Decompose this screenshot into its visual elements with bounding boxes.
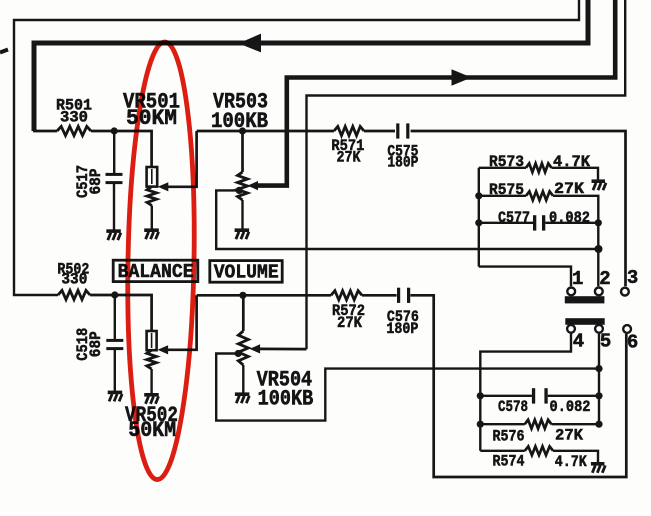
svg-text:R575: R575 (489, 181, 524, 199)
resistor R575 row (475, 192, 482, 199)
node: junction R501/C517 (111, 127, 118, 134)
ground at R573 right (592, 179, 606, 183)
resistor R576 row (477, 421, 484, 428)
potentiometer VR502 (box + zigzag) (147, 331, 157, 350)
svg-text:68P: 68P (87, 169, 105, 195)
potentiometer VR504 (242, 295, 245, 331)
wiper arrow VR503 + thick output bus to top edge (248, 181, 259, 190)
svg-text:27K: 27K (555, 427, 583, 445)
border tick top-left (0, 50, 8, 53)
svg-text:R573: R573 (489, 153, 524, 171)
resistor R501 (57, 126, 91, 135)
label C517/68P rotated (74, 165, 92, 198)
node: pin2 junction with row y=249 (595, 245, 603, 253)
resistor R502 (58, 290, 90, 299)
svg-text:180P: 180P (386, 320, 418, 338)
wire: top main row (VR501 wiper to VR503, R571, C575, to pin3 column) (197, 130, 334, 133)
svg-text:4.7K: 4.7K (555, 453, 587, 471)
svg-text:R576: R576 (493, 427, 525, 445)
wiper arrow VR501 (158, 182, 169, 191)
wire: C576 to pin6 via bottom loop (410, 295, 626, 477)
resistor R573 row (479, 167, 526, 169)
svg-text:27K: 27K (337, 314, 362, 332)
svg-text:C578: C578 (498, 398, 528, 416)
svg-text:2: 2 (599, 268, 610, 290)
resistor R574 row (480, 450, 525, 452)
svg-text:1: 1 (572, 268, 583, 290)
wire: VR504 wiper up and over to pin3-column top exit (307, 0, 626, 349)
wire: VR503 tap to pin2 (long row y=249) (216, 190, 598, 249)
annotation: red ellipse (124, 41, 198, 480)
resistor R572 (331, 291, 362, 300)
switch upper: pins 1 2 3 (565, 296, 605, 303)
svg-text:330: 330 (60, 109, 88, 127)
svg-text:VOLUME: VOLUME (214, 262, 279, 284)
svg-text:C577: C577 (498, 209, 530, 227)
wiper arrow VR504 (250, 344, 261, 353)
node: VR503 lower tap (236, 187, 243, 194)
svg-text:68P: 68P (87, 331, 105, 357)
arrowhead right on thick bus (452, 69, 472, 85)
svg-text:4: 4 (573, 331, 584, 353)
node: VR504 lower tap (235, 350, 242, 357)
label box VOLUME (210, 261, 282, 283)
capacitor C576 (397, 288, 400, 303)
svg-text:330: 330 (61, 271, 87, 289)
ground under VR501 (144, 228, 159, 232)
svg-text:3: 3 (627, 267, 638, 289)
arrowhead left on thick bus (239, 34, 262, 53)
ground under C518 (108, 391, 123, 395)
node: VR503 top (239, 127, 246, 134)
network R573/R575/C577 left rail (478, 168, 480, 267)
potentiometer VR503 (241, 131, 244, 172)
wire: R501 row left segment (33, 130, 57, 133)
switch lower: pins 4 5 6 (565, 318, 604, 325)
ground under VR503 (235, 228, 250, 232)
ground under VR502 (144, 393, 159, 397)
wire: lower main row from VR502 wiper through R572, C576 (197, 294, 331, 297)
node: VR504 top (239, 292, 246, 299)
svg-text:0.082: 0.082 (549, 209, 590, 227)
ground under C517 (106, 229, 121, 233)
capacitor C578 row (477, 392, 484, 399)
svg-text:50KM: 50KM (126, 106, 177, 131)
capacitor C518 (114, 295, 116, 339)
svg-text:4.7K: 4.7K (553, 153, 590, 171)
svg-text:100KB: 100KB (211, 109, 268, 134)
wire: rail to pin1 (479, 267, 571, 287)
resistor R571 (334, 126, 364, 135)
potentiometer VR501 (box + zigzag) (147, 167, 158, 187)
wire: R501 to VR501 top (91, 131, 152, 167)
svg-text:100KB: 100KB (258, 387, 314, 412)
wire: thick bus from top edge to R501 (34, 0, 588, 131)
capacitor C577 row (475, 219, 482, 226)
wire: signal line from top edge down-left to R502 (14, 0, 579, 295)
capacitor C575 (396, 123, 399, 138)
wire: pin5 column (598, 333, 600, 424)
svg-text:6: 6 (627, 332, 638, 354)
svg-text:5: 5 (600, 331, 611, 353)
ground under VR504 (235, 392, 250, 396)
wiper arrow VR502 (158, 345, 169, 354)
ground at R574 right (591, 462, 605, 466)
svg-text:180P: 180P (387, 153, 418, 171)
svg-text:27K: 27K (554, 180, 584, 198)
svg-text:27K: 27K (337, 148, 361, 166)
node: junction R502/C518 (111, 291, 118, 298)
wire: VR504 tap loop to pin5 row (216, 354, 599, 421)
label C518/68P rotated (74, 328, 92, 361)
svg-text:0.082: 0.082 (550, 398, 591, 416)
label box BALANCE (113, 260, 198, 281)
wire: pin4 to lower network rail (480, 333, 571, 451)
svg-text:R574: R574 (493, 453, 525, 471)
capacitor C517 (113, 131, 115, 175)
